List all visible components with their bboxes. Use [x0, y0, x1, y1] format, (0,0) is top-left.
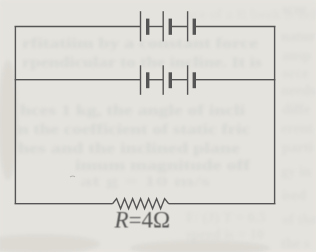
- battery B2 cell 2: short plate: [169, 72, 172, 88]
- resistor value label R=4ohm: [114, 208, 171, 233]
- svg-text:n the coefficient of static fr: n the coefficient of static fric: [18, 122, 251, 138]
- svg-text:R=4Ω: R=4Ω: [114, 208, 171, 233]
- battery B2 cell 1: short plate: [146, 72, 149, 88]
- wire: [170, 26, 187, 28]
- top branch: wire right segment: [194, 26, 275, 28]
- svg-text:imum magnitude off: imum magnitude off: [75, 158, 250, 174]
- middle branch: wire right segment: [194, 79, 275, 81]
- svg-text:parti: parti: [282, 140, 313, 156]
- svg-text:speed is = 10: speed is = 10: [186, 227, 264, 243]
- top branch: wire left segment: [15, 26, 141, 28]
- battery B1 cell 2: short plate: [169, 19, 172, 35]
- svg-text:ised: ised: [282, 188, 306, 204]
- battery B1 cell 3: short plate: [193, 19, 196, 35]
- battery B1 cell 3: long plate: [187, 11, 189, 41]
- svg-text:hces 1 kg, the angle of incli: hces 1 kg, the angle of incli: [20, 103, 245, 119]
- svg-text:the s: the s: [281, 236, 310, 252]
- wire: [148, 79, 164, 81]
- middle branch: wire left segment: [15, 79, 141, 81]
- right vertical wire: [274, 27, 276, 204]
- battery B2 cell 2: long plate: [162, 65, 164, 95]
- svg-text:ansp: ansp: [282, 48, 311, 64]
- left vertical wire: [14, 27, 16, 204]
- battery B1 cell 2: long plate: [162, 11, 164, 41]
- svg-text:natur: natur: [281, 29, 316, 45]
- bottom branch: wire right segment: [169, 203, 276, 205]
- svg-text:scre: scre: [282, 2, 307, 18]
- svg-text:diffe: diffe: [282, 102, 311, 118]
- battery B2 cell 1: long plate: [140, 65, 142, 95]
- circuit: drawn with slight scan blur: [15, 11, 276, 209]
- wire: [170, 79, 187, 81]
- svg-text:gy in: gy in: [281, 164, 311, 180]
- battery B1 cell 1: long plate: [140, 11, 142, 41]
- battery B1 cell 1: short plate: [146, 19, 149, 35]
- svg-text:at g = 10 m/s: at g = 10 m/s: [80, 174, 211, 190]
- svg-text:rpendicular to the incline. It: rpendicular to the incline. It is: [22, 55, 262, 71]
- svg-text:of the: of the: [282, 212, 316, 228]
- svg-text:erent: erent: [281, 121, 313, 137]
- svg-text:hes and the inclined plane: hes and the inclined plane: [18, 141, 241, 157]
- svg-text:orce: orce: [282, 66, 309, 82]
- resistor R (4 ohm) zigzag: [113, 199, 169, 209]
- wire: [148, 26, 164, 28]
- svg-text:F/ (J) T = 0.5: F/ (J) T = 0.5: [186, 210, 266, 226]
- bottom branch: wire left segment: [15, 203, 113, 205]
- tiny ink speck: [70, 176, 75, 177]
- battery B2 cell 3: long plate: [187, 65, 189, 95]
- battery B2 cell 3: short plate: [193, 72, 196, 88]
- svg-text:needs: needs: [281, 83, 316, 99]
